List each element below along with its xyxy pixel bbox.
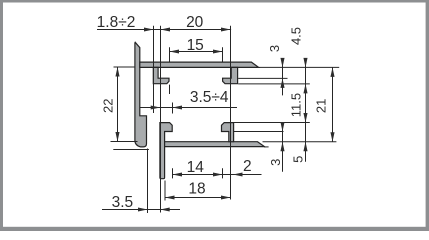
bottom hook 2 (stem + foot pointing left, chamfer top-left) [222,123,234,142]
short tail below hook1 foot [169,85,171,94]
arrow 15 left (points left at 169.1) [170,49,180,53]
rail bottom edge short extension [264,146,269,148]
svg-text:18: 18 [188,181,205,198]
3.5÷4 dim line [140,107,237,109]
arrow 4.5 upper (points down at 67.4) [303,58,307,68]
14 right ext tick [222,168,224,178]
svg-text:2: 2 [243,158,252,175]
svg-text:5: 5 [291,156,306,163]
arrow 3-top upper (points down at 67.4) [280,58,284,68]
arrow 4.5 lower / 11.5 top (points up at 83.7) [303,84,307,94]
arrow 3-bottom upper (points down at 131.5) [280,122,284,132]
border frame right [426,0,429,231]
svg-text:4.5: 4.5 [289,27,304,45]
svg-text:1.8÷2: 1.8÷2 [97,14,136,31]
arrow 20 right (points right at 231.1) [221,27,231,31]
top rail (horizontal profile, right end chamfered) [140,62,259,67]
15 ext lines [169,47,171,62]
svg-text:20: 20 [186,14,204,31]
arrow 3.5÷4 right (points left at 172.2) [173,105,183,109]
18 left ext [164,181,166,201]
bottom hook foot bottom ref line [234,131,284,133]
arrow 21 top (points up at 67.4) [330,67,334,77]
top inner reference line [259,66,340,68]
svg-text:15: 15 [187,37,204,54]
frame upright bar with foot (left vertical profile) [135,42,147,147]
3.5 dim line [102,209,180,211]
3 top dim line [282,60,284,95]
18 dim line [165,197,231,199]
long ext line x=160 (hook1 stem right / strip left) [160,26,162,213]
bottom inner reference line [263,141,337,143]
svg-text:3.5÷4: 3.5÷4 [190,89,229,106]
border frame top [0,0,429,3]
arrow 3-bottom lower (points up at 141.7) [280,142,284,152]
3 bottom dim line [282,124,284,172]
arrow 22 bottom (points down) [115,132,119,142]
foot bottom tangent ext line [113,149,149,151]
long ext line x=230.4 (hook2 stem left) [230,26,232,200]
3.5 left ext (foot right edge) [147,149,149,214]
bottom hook foot top ref line [234,122,310,124]
15 dim line [170,51,223,53]
arrow 3-top lower (points up at 78.2) [280,78,284,88]
svg-text:22: 22 [100,98,115,112]
arrow 14 right (points right) [213,172,223,176]
arrow 5 bottom (points up at 141.7) [303,142,307,152]
arrow 11.5 bottom / 5 top (points down at 122.6) [303,113,307,123]
svg-text:11.5: 11.5 [289,93,304,117]
arrow 1.8÷2 left (points right at 153) [144,27,154,31]
svg-text:3: 3 [267,45,282,52]
ext line hook1 stem left [153,26,155,113]
22 top ext [114,66,135,68]
arrow 21 bottom (points down at 141.7) [330,132,334,142]
svg-text:21: 21 [313,99,328,113]
21 dim line [332,67,334,141]
border frame bottom [0,227,429,231]
top hook 1 (stem + foot pointing right) [153,67,169,83]
arrow 15 right (points right at 222.4) [213,49,223,53]
hook foot top ref line [238,77,287,79]
dimension texts [97,14,329,211]
arrow 2 right (points left at 233.6) [233,172,243,176]
22 dim line [117,67,119,142]
arrow shared at 160 (points left) [161,27,171,31]
bottom strip with top hook foot (sash upright) [160,123,172,179]
bottom rail (horizontal profile, right end chamfered) [165,142,265,147]
top hook 2 (stem + foot pointing left) [223,67,238,83]
14 dim line [173,174,262,176]
tick at 172.2 for 3.5÷4 [172,103,174,114]
arrow 14 left (points left) [173,172,183,176]
dimension lines and extension lines [97,26,339,213]
arrow 18 right (points right at 230.4) [221,195,231,199]
22 bottom ext [111,141,138,143]
arrow 3.5 right (points left at 159.9) [160,207,170,211]
arrow 18 left (points left at 164.9) [165,195,175,199]
border frame left [0,0,3,231]
top dim line (1.8÷2 and 20) [97,29,231,31]
svg-text:3.5: 3.5 [112,194,134,211]
arrow 3.5 left (points right at 147.7) [138,207,148,211]
svg-text:3: 3 [268,159,283,166]
4.5 / 11.5 / 5 shared dim line [305,60,307,162]
hook bottom ref line [238,83,310,85]
arrowheads [115,27,334,211]
arrow 3.5÷4 left (points right at 159.8) [151,105,161,109]
14 left ext tick [172,168,174,178]
svg-text:14: 14 [187,159,205,176]
arrow 22 top (points up) [115,67,119,77]
